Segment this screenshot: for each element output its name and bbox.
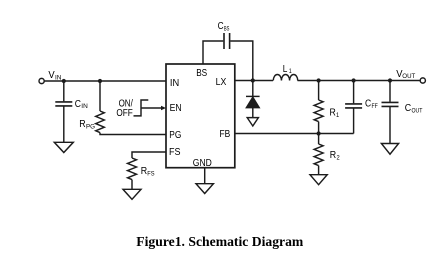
svg-text:1: 1 [336,112,339,119]
wire VIN rail to IN pin [44,80,166,82]
node dot COUT tap [388,78,392,82]
wire GND pin down [204,168,206,184]
svg-text:IN: IN [170,77,179,89]
resistor R2 [314,144,323,166]
svg-text:Figure1. Schematic Diagram: Figure1. Schematic Diagram [136,234,304,249]
svg-text:IN: IN [81,103,88,110]
svg-text:OUT: OUT [402,73,415,80]
svg-text:PG: PG [169,129,181,141]
ground (diode) [247,118,258,126]
svg-text:PG: PG [86,124,95,131]
node dot RPG tap [98,79,102,83]
svg-text:FF: FF [372,103,378,110]
svg-text:IN: IN [55,74,62,81]
wire RPG to PG pin [100,133,166,135]
node dot FB junction [317,131,321,135]
resistor R_FS [128,158,137,180]
terminal VOUT [420,78,425,83]
wire EN arrow line [141,107,162,109]
wire BS pin up [203,41,223,64]
svg-text:2: 2 [337,155,340,162]
wire RPG branch [99,81,101,111]
capacitor C_BS [224,33,230,49]
terminal VIN [39,78,44,83]
wire R1 branch [318,81,320,101]
capacitor C_IN [55,102,72,106]
node dot CFF tap [352,78,356,82]
wire LX to inductor [235,80,273,82]
inductor L1 [273,74,297,80]
wire CFF to FB line [353,109,355,134]
svg-text:BS: BS [196,67,207,79]
ground (RFS) [123,189,141,199]
arrowhead EN [161,106,166,111]
svg-text:BS: BS [224,26,230,33]
svg-text:V: V [48,69,54,81]
wire diode to ground [252,108,254,118]
node dot LX/diode/CBS [251,78,255,82]
wire diode branch [252,81,254,97]
svg-text:L: L [283,63,288,75]
wire CFF branch [353,81,355,104]
op IC box U1 [166,64,235,168]
wire CBS to LX node [230,41,253,81]
diode D1 [246,95,260,97]
wire FS pin [132,152,166,158]
svg-text:FS: FS [147,170,155,177]
wire R1 to FB line [318,122,320,134]
wire CIN to ground [63,107,65,143]
svg-text:EN: EN [170,102,182,114]
wire RFS to ground [131,180,133,190]
wire output rail [298,80,421,82]
svg-text:FS: FS [169,146,181,158]
wire R2 branch [318,134,320,145]
ground (R2) [310,175,327,185]
svg-text:LX: LX [216,76,227,88]
capacitor C_FF [345,104,362,108]
ground (CIN) [54,142,73,152]
resistor R1 [314,100,323,122]
svg-text:OFF: OFF [116,107,132,119]
svg-text:GND: GND [193,157,212,169]
node dot CIN tap [62,79,66,83]
svg-text:1: 1 [289,68,292,75]
wire R2 to ground [318,166,320,175]
ON/OFF step waveform [134,100,149,116]
ground (GND pin) [196,184,213,194]
svg-text:OUT: OUT [412,107,423,114]
ground (COUT) [381,144,398,155]
svg-text:FB: FB [220,128,231,140]
wire COUT branch [389,81,391,102]
node dot R1 tap [317,78,321,82]
resistor R_PG [96,111,105,133]
wire CIN branch [63,81,65,101]
wire FB line [235,133,354,135]
wire COUT to ground [389,107,391,144]
capacitor C_OUT [382,102,399,106]
